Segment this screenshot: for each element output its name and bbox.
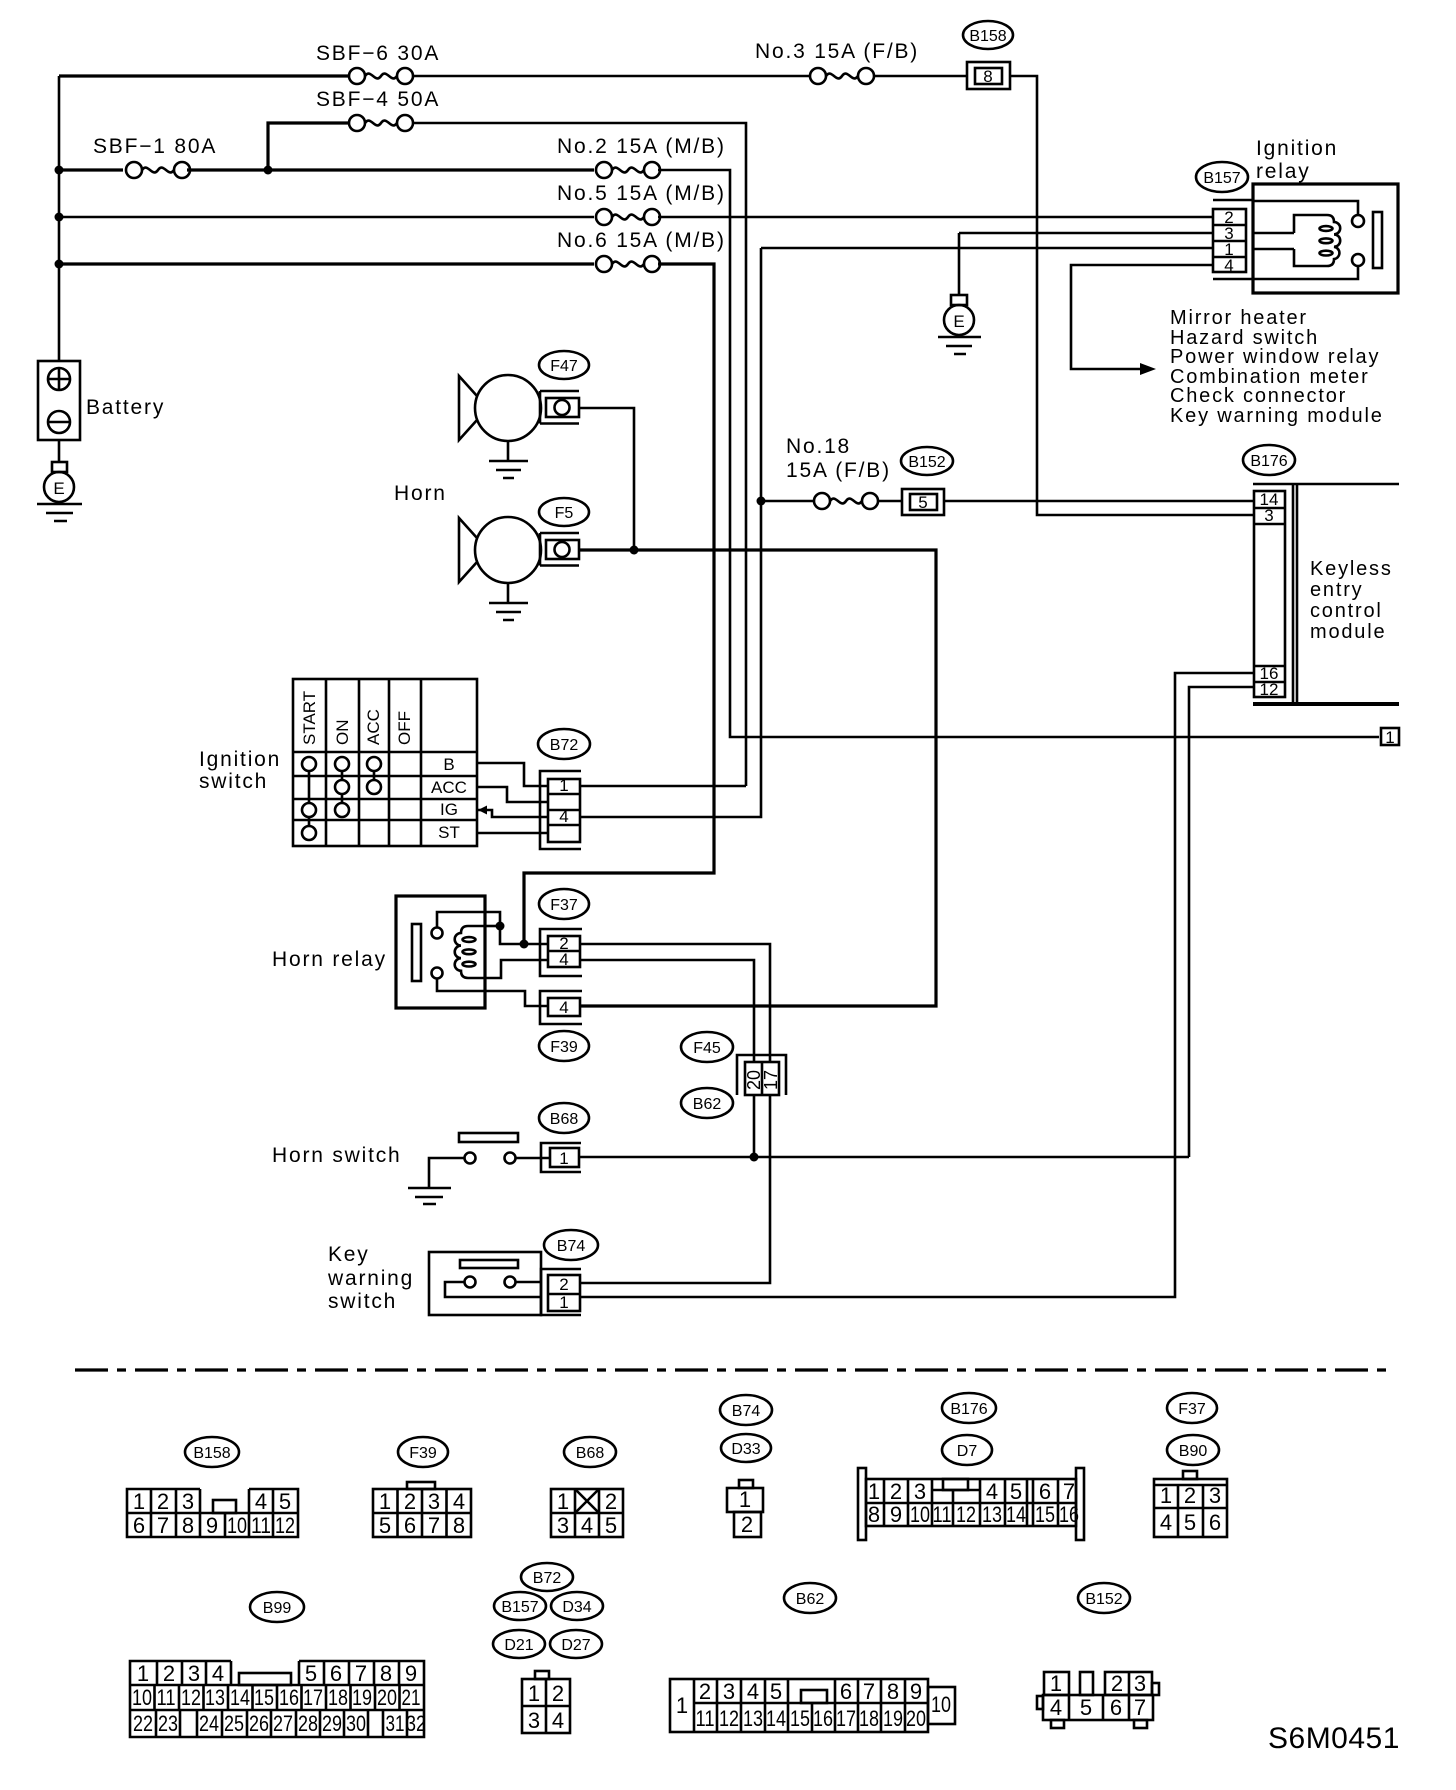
svg-text:2: 2 xyxy=(890,1479,902,1504)
connector F39 label xyxy=(539,1031,589,1061)
svg-text:1: 1 xyxy=(1385,728,1394,747)
svg-text:4: 4 xyxy=(552,1708,564,1733)
svg-text:B152: B152 xyxy=(1085,1591,1122,1608)
wire SBF-6 feed from battery xyxy=(59,74,349,77)
connector pinout B99 xyxy=(130,1592,426,1737)
svg-text:1: 1 xyxy=(559,776,568,795)
svg-text:22: 22 xyxy=(133,1711,153,1736)
svg-text:Horn switch: Horn switch xyxy=(272,1144,402,1167)
svg-text:4: 4 xyxy=(212,1661,224,1686)
svg-text:27: 27 xyxy=(273,1711,293,1736)
svg-text:B72: B72 xyxy=(533,1570,562,1587)
junction No.6 feed xyxy=(520,940,529,949)
svg-text:8: 8 xyxy=(453,1513,465,1538)
svg-text:6: 6 xyxy=(404,1513,416,1538)
svg-text:8: 8 xyxy=(868,1502,880,1527)
svg-text:B176: B176 xyxy=(950,1401,987,1418)
connector F39 pin block xyxy=(548,998,580,1017)
fuse SBF-1 80A xyxy=(93,135,217,178)
svg-text:E: E xyxy=(53,479,64,498)
svg-text:7: 7 xyxy=(1063,1479,1075,1504)
svg-text:5: 5 xyxy=(279,1489,291,1514)
svg-text:20: 20 xyxy=(906,1706,926,1731)
svg-text:5: 5 xyxy=(1080,1695,1092,1720)
junction battery-No.6 xyxy=(55,260,64,269)
connector B68 shell xyxy=(541,1143,581,1172)
svg-text:19: 19 xyxy=(352,1685,372,1710)
svg-text:4: 4 xyxy=(255,1489,267,1514)
horn F47 xyxy=(459,351,589,441)
svg-text:8: 8 xyxy=(983,67,992,86)
svg-text:OFF: OFF xyxy=(395,711,414,745)
junction horns xyxy=(630,546,639,555)
connector B74 pin block xyxy=(548,1275,580,1312)
connector B72 label xyxy=(538,729,590,759)
svg-text:B68: B68 xyxy=(576,1445,605,1462)
svg-text:17: 17 xyxy=(303,1685,323,1710)
connector B68 label xyxy=(539,1103,589,1133)
svg-text:B62: B62 xyxy=(693,1096,722,1113)
svg-text:13: 13 xyxy=(743,1706,763,1731)
svg-text:13: 13 xyxy=(982,1502,1002,1527)
svg-text:9: 9 xyxy=(890,1502,902,1527)
svg-text:6: 6 xyxy=(1039,1479,1051,1504)
svg-text:D7: D7 xyxy=(957,1443,978,1460)
junction battery-SBF1 xyxy=(55,166,64,175)
svg-text:No.2 15A (M/B): No.2 15A (M/B) xyxy=(557,135,726,158)
wire horn switch to ground xyxy=(408,1158,464,1204)
wire B158 to keyless pin 3 (down at x=1037) xyxy=(1010,76,1254,515)
wire battery to SBF-1 xyxy=(59,168,123,171)
svg-text:8: 8 xyxy=(182,1513,194,1538)
svg-text:entry: entry xyxy=(1310,579,1363,601)
svg-text:1: 1 xyxy=(1160,1483,1172,1508)
wire battery negative to ground xyxy=(58,440,61,462)
svg-text:32: 32 xyxy=(406,1711,426,1736)
svg-text:1: 1 xyxy=(739,1487,751,1512)
svg-text:16: 16 xyxy=(279,1685,299,1710)
relay coil xyxy=(1253,215,1340,266)
connector pinout F37 / B90 xyxy=(1154,1393,1227,1537)
wire F45 pin17 down to key warning B74 pin2 xyxy=(580,1095,770,1283)
connector B74 label xyxy=(544,1230,598,1260)
svg-text:12: 12 xyxy=(181,1685,201,1710)
svg-text:3: 3 xyxy=(182,1489,194,1514)
wire F37 pin4 to F45 pin20 xyxy=(580,960,754,1062)
svg-text:S6M0451: S6M0451 xyxy=(1268,1722,1400,1755)
svg-text:1: 1 xyxy=(676,1693,688,1718)
svg-text:B157: B157 xyxy=(1203,170,1240,187)
ignition switch table xyxy=(293,679,477,846)
junction coil-contact xyxy=(496,922,505,931)
svg-text:4: 4 xyxy=(559,998,568,1017)
wire ignition ACC row to B72 pin2 xyxy=(477,787,548,802)
wire horn relay upper contact / coil to F37 pin2 xyxy=(437,912,548,944)
relay internal contact arm xyxy=(1253,201,1358,215)
svg-text:B74: B74 xyxy=(732,1403,761,1420)
wire battery positive riser xyxy=(58,76,61,361)
svg-text:14: 14 xyxy=(230,1685,250,1710)
svg-text:Horn: Horn xyxy=(394,482,447,505)
connector pinout F39 xyxy=(373,1437,471,1538)
svg-text:1: 1 xyxy=(557,1489,569,1514)
svg-text:Battery: Battery xyxy=(86,396,165,419)
svg-text:START: START xyxy=(300,691,319,745)
connector pinout B176 / D7 xyxy=(858,1393,1084,1540)
wire battery to No.5 fuse xyxy=(59,216,594,219)
svg-text:3: 3 xyxy=(188,1661,200,1686)
ground E below battery xyxy=(37,462,82,521)
svg-text:F47: F47 xyxy=(550,358,578,375)
connector B158 pin 8 xyxy=(963,21,1013,89)
wire B152 to keyless pin 14 xyxy=(944,500,1254,503)
svg-text:Key warning module: Key warning module xyxy=(1170,405,1384,427)
keyless module body xyxy=(1253,484,1399,704)
fuse No.3 15A (F/B) xyxy=(755,40,919,84)
wire to No.18 fuse xyxy=(761,500,814,503)
connector B152 pin 5 xyxy=(901,447,953,515)
svg-text:1: 1 xyxy=(559,1293,568,1312)
fuse No.18 15A (F/B) xyxy=(814,493,878,509)
svg-text:9: 9 xyxy=(405,1661,417,1686)
svg-text:Key: Key xyxy=(328,1243,370,1266)
svg-text:5: 5 xyxy=(305,1661,317,1686)
connector F45/B62 pin block 20/17 xyxy=(737,1055,786,1095)
connector F37 shell xyxy=(540,929,582,976)
svg-text:3: 3 xyxy=(528,1708,540,1733)
svg-text:1: 1 xyxy=(137,1661,149,1686)
svg-text:4: 4 xyxy=(559,950,568,969)
svg-text:6: 6 xyxy=(840,1679,852,1704)
svg-text:19: 19 xyxy=(883,1706,903,1731)
svg-text:3: 3 xyxy=(914,1479,926,1504)
connector B68 pin block xyxy=(550,1148,579,1168)
horn relay contact bar xyxy=(412,924,421,981)
wire relay pin 3 to ground drop xyxy=(959,232,1213,235)
svg-text:28: 28 xyxy=(298,1711,318,1736)
wire battery to No.6 fuse xyxy=(59,262,594,265)
svg-text:6: 6 xyxy=(133,1513,145,1538)
junction No.18 tap xyxy=(757,497,766,506)
svg-text:2: 2 xyxy=(1111,1671,1123,1696)
wire SBF-4 to B72 pin 1 (down at x=746) xyxy=(413,123,746,786)
svg-text:control: control xyxy=(1310,600,1383,622)
svg-text:15A (F/B): 15A (F/B) xyxy=(786,459,891,482)
svg-text:12: 12 xyxy=(719,1706,739,1731)
svg-text:6: 6 xyxy=(1110,1695,1122,1720)
wire No.5 fuse to ignition relay pin 2 xyxy=(658,216,1213,219)
svg-text:D27: D27 xyxy=(561,1637,590,1654)
wire horn feed to horn relay contact xyxy=(579,550,936,1006)
svg-text:B157: B157 xyxy=(501,1599,538,1616)
svg-text:4: 4 xyxy=(1224,256,1233,275)
svg-text:10: 10 xyxy=(931,1692,951,1717)
svg-text:24: 24 xyxy=(199,1711,219,1736)
svg-text:ON: ON xyxy=(333,720,352,746)
wire horn relay lower contact to F39 pin4 xyxy=(437,979,548,1006)
svg-text:module: module xyxy=(1310,621,1386,643)
fuse No.5 15A (M/B) xyxy=(557,182,726,225)
svg-text:3: 3 xyxy=(723,1679,735,1704)
svg-text:23: 23 xyxy=(158,1711,178,1736)
wire horn F47 ground xyxy=(489,441,528,478)
connector B176 pin block xyxy=(1254,490,1285,699)
svg-text:29: 29 xyxy=(322,1711,342,1736)
connector F39 shell xyxy=(540,991,582,1024)
connector pinout B68 xyxy=(551,1437,623,1538)
svg-text:4: 4 xyxy=(747,1679,759,1704)
svg-text:10: 10 xyxy=(910,1502,930,1527)
connector pinout B72 / B157 / D34 / D21 / D27 xyxy=(493,1563,603,1733)
horn F5 xyxy=(459,498,589,583)
svg-text:Horn relay: Horn relay xyxy=(272,948,387,971)
svg-text:2: 2 xyxy=(552,1681,564,1706)
svg-text:2: 2 xyxy=(163,1661,175,1686)
connector B157 pin block xyxy=(1213,208,1246,275)
svg-text:4: 4 xyxy=(986,1479,998,1504)
svg-text:12: 12 xyxy=(275,1513,295,1538)
svg-text:9: 9 xyxy=(206,1513,218,1538)
horn relay coil xyxy=(455,926,486,978)
connector pinout B62 xyxy=(670,1583,955,1732)
arrow IG wire xyxy=(478,806,487,815)
wire fuse to B152 xyxy=(878,500,902,503)
terminal 1 right edge xyxy=(1381,728,1399,747)
svg-text:No.18: No.18 xyxy=(786,435,851,458)
fuse No.6 15A (M/B) xyxy=(557,229,726,272)
connector B72 pin block xyxy=(548,776,580,842)
svg-text:2: 2 xyxy=(404,1489,416,1514)
svg-text:5: 5 xyxy=(1010,1479,1022,1504)
svg-text:ACC: ACC xyxy=(431,778,467,797)
svg-text:7: 7 xyxy=(355,1661,367,1686)
wire No.6 fuse to horn relay (down x=714, left y=873, down x=524) xyxy=(524,264,714,944)
svg-text:F39: F39 xyxy=(409,1445,437,1462)
ignition switch contacts START column xyxy=(302,757,316,840)
connector F37 pin block xyxy=(548,934,580,969)
svg-text:21: 21 xyxy=(402,1685,421,1710)
connector pinout B152 xyxy=(1037,1583,1159,1728)
svg-text:11: 11 xyxy=(251,1513,271,1538)
svg-text:3: 3 xyxy=(1134,1671,1146,1696)
svg-text:1: 1 xyxy=(133,1489,145,1514)
svg-text:1: 1 xyxy=(559,1149,568,1168)
connector B72 shell xyxy=(540,771,581,849)
svg-text:Ignition: Ignition xyxy=(199,748,281,771)
svg-text:Keyless: Keyless xyxy=(1310,558,1393,580)
svg-text:4: 4 xyxy=(559,807,568,826)
svg-text:F5: F5 xyxy=(555,505,574,522)
svg-text:4: 4 xyxy=(1050,1695,1062,1720)
connector B74 shell xyxy=(541,1269,581,1315)
svg-text:4: 4 xyxy=(1160,1510,1172,1535)
load list text xyxy=(1170,307,1384,427)
svg-text:16: 16 xyxy=(813,1706,833,1731)
svg-text:B62: B62 xyxy=(796,1591,825,1608)
wire keyless pin 12 to horn switch net xyxy=(1189,687,1254,1157)
wire ignition IG row to B72 pin3 xyxy=(477,810,548,817)
wire No.3 fuse to B158 xyxy=(874,75,967,78)
svg-text:B74: B74 xyxy=(557,1238,586,1255)
svg-text:13: 13 xyxy=(205,1685,225,1710)
svg-text:8: 8 xyxy=(380,1661,392,1686)
svg-text:F39: F39 xyxy=(550,1039,578,1056)
svg-text:18: 18 xyxy=(328,1685,348,1710)
wire B68 pin1 to keyless pin12 net xyxy=(579,1156,1189,1159)
svg-text:6: 6 xyxy=(1209,1510,1221,1535)
wire SBF-4 branch riser xyxy=(268,123,349,170)
svg-text:5: 5 xyxy=(770,1679,782,1704)
svg-text:SBF−1 80A: SBF−1 80A xyxy=(93,135,217,158)
svg-text:F37: F37 xyxy=(1178,1401,1206,1418)
svg-text:2: 2 xyxy=(559,1275,568,1294)
svg-text:3: 3 xyxy=(557,1513,569,1538)
svg-text:D34: D34 xyxy=(562,1599,591,1616)
svg-text:3: 3 xyxy=(1264,506,1273,525)
svg-text:10: 10 xyxy=(132,1685,152,1710)
svg-text:5: 5 xyxy=(605,1513,617,1538)
wire horn F5 ground xyxy=(489,583,528,620)
arrow to loads xyxy=(1140,363,1156,375)
relay case stubs xyxy=(1213,200,1253,279)
svg-text:2: 2 xyxy=(1184,1483,1196,1508)
svg-text:17: 17 xyxy=(761,1070,781,1090)
svg-text:6: 6 xyxy=(330,1661,342,1686)
svg-text:F37: F37 xyxy=(550,897,578,914)
svg-text:18: 18 xyxy=(859,1706,879,1731)
connector pinout B158 xyxy=(127,1437,298,1538)
svg-text:10: 10 xyxy=(227,1513,247,1538)
connector B176 label xyxy=(1243,445,1295,475)
wire relay pin 1 from IG net xyxy=(761,247,1213,250)
svg-text:4: 4 xyxy=(581,1513,593,1538)
wire horn F47 to junction xyxy=(579,408,634,550)
wire F37 pin2 to F45 pin17 xyxy=(580,944,770,1062)
svg-text:16: 16 xyxy=(1059,1502,1079,1527)
svg-text:Check connector: Check connector xyxy=(1170,385,1347,407)
svg-text:B158: B158 xyxy=(193,1445,230,1462)
svg-text:ST: ST xyxy=(438,823,460,842)
svg-text:No.6 15A (M/B): No.6 15A (M/B) xyxy=(557,229,726,252)
svg-text:relay: relay xyxy=(1256,160,1311,183)
junction SBF-4 tap xyxy=(264,166,273,175)
svg-text:12: 12 xyxy=(1260,680,1279,699)
svg-text:9: 9 xyxy=(910,1679,922,1704)
svg-text:11: 11 xyxy=(696,1706,715,1731)
connector F37 label xyxy=(539,889,589,919)
svg-text:30: 30 xyxy=(346,1711,366,1736)
svg-text:warning: warning xyxy=(327,1267,414,1290)
wire F45 pin20 down to horn switch net xyxy=(753,1095,756,1157)
wire SBF-1 to No.2 fuse xyxy=(187,168,594,171)
wire horn switch to B68 xyxy=(516,1157,550,1160)
connector F45/B62 labels xyxy=(681,1032,733,1118)
svg-text:ACC: ACC xyxy=(364,709,383,745)
svg-text:15: 15 xyxy=(790,1706,810,1731)
svg-text:B68: B68 xyxy=(550,1111,579,1128)
svg-text:14: 14 xyxy=(1006,1502,1026,1527)
svg-text:15: 15 xyxy=(1035,1502,1055,1527)
svg-text:No.3 15A (F/B): No.3 15A (F/B) xyxy=(755,40,919,63)
ignition switch contacts ON column xyxy=(335,757,349,817)
svg-text:B152: B152 xyxy=(908,454,945,471)
svg-text:2: 2 xyxy=(605,1489,617,1514)
svg-text:D21: D21 xyxy=(504,1637,533,1654)
svg-text:SBF−4 50A: SBF−4 50A xyxy=(316,88,440,111)
svg-text:17: 17 xyxy=(836,1706,856,1731)
wire B72 pin1 to SBF-4 xyxy=(580,785,746,788)
svg-text:5: 5 xyxy=(1184,1510,1196,1535)
svg-text:switch: switch xyxy=(199,770,268,793)
svg-text:3: 3 xyxy=(1209,1483,1221,1508)
svg-text:B176: B176 xyxy=(1250,453,1287,470)
battery xyxy=(38,361,165,440)
connector pinout B74 / D33 xyxy=(720,1395,772,1537)
svg-text:11: 11 xyxy=(933,1502,952,1527)
relay horn relay case xyxy=(396,896,485,1008)
svg-text:IG: IG xyxy=(440,800,458,819)
svg-text:1: 1 xyxy=(528,1681,540,1706)
svg-text:11: 11 xyxy=(157,1685,176,1710)
svg-text:B90: B90 xyxy=(1179,1443,1208,1460)
svg-text:4: 4 xyxy=(453,1489,465,1514)
wire ignition ST row to B72 pin4 xyxy=(477,832,548,835)
svg-text:Power window relay: Power window relay xyxy=(1170,346,1380,368)
relay contact bar xyxy=(1373,212,1382,268)
wire No.2 fuse to terminal 1 (down x=730, right y=737) xyxy=(658,170,1379,737)
svg-text:3: 3 xyxy=(428,1489,440,1514)
ground E near relay xyxy=(938,233,981,354)
svg-text:12: 12 xyxy=(956,1502,976,1527)
svg-text:7: 7 xyxy=(428,1513,440,1538)
svg-text:F45: F45 xyxy=(693,1040,721,1057)
svg-text:2: 2 xyxy=(157,1489,169,1514)
svg-text:2: 2 xyxy=(741,1512,753,1537)
svg-text:31: 31 xyxy=(386,1711,405,1736)
svg-text:Mirror heater: Mirror heater xyxy=(1170,307,1308,329)
svg-text:1: 1 xyxy=(868,1479,880,1504)
fuse SBF-6 30A xyxy=(316,42,440,84)
svg-text:B72: B72 xyxy=(550,737,579,754)
key warning switch xyxy=(429,1252,541,1315)
svg-text:25: 25 xyxy=(224,1711,244,1736)
horn switch xyxy=(459,1133,518,1164)
svg-text:E: E xyxy=(953,312,964,331)
svg-text:No.5 15A (M/B): No.5 15A (M/B) xyxy=(557,182,726,205)
fuse No.2 15A (M/B) xyxy=(557,135,726,178)
svg-text:26: 26 xyxy=(249,1711,269,1736)
svg-text:5: 5 xyxy=(379,1513,391,1538)
svg-text:14: 14 xyxy=(766,1706,786,1731)
svg-text:B158: B158 xyxy=(969,28,1006,45)
svg-text:1: 1 xyxy=(379,1489,391,1514)
junction F45 pin20 tap xyxy=(750,1153,759,1162)
horn relay contacts xyxy=(432,928,443,939)
wire keyless pin 16 to key warning switch xyxy=(580,673,1254,1297)
svg-text:1: 1 xyxy=(1050,1671,1062,1696)
connector B157 label xyxy=(1196,162,1248,192)
wire ignition B row to B72 pin1 xyxy=(477,763,548,786)
svg-text:7: 7 xyxy=(1134,1695,1146,1720)
svg-text:D33: D33 xyxy=(731,1441,760,1458)
label keyless entry control module xyxy=(1310,558,1393,643)
fuse SBF-4 50A xyxy=(316,88,440,131)
svg-text:SBF−6 30A: SBF−6 30A xyxy=(316,42,440,65)
ignition switch contacts ACC column xyxy=(367,757,381,794)
svg-text:7: 7 xyxy=(157,1513,169,1538)
svg-text:5: 5 xyxy=(918,493,927,512)
svg-text:B: B xyxy=(443,755,454,774)
